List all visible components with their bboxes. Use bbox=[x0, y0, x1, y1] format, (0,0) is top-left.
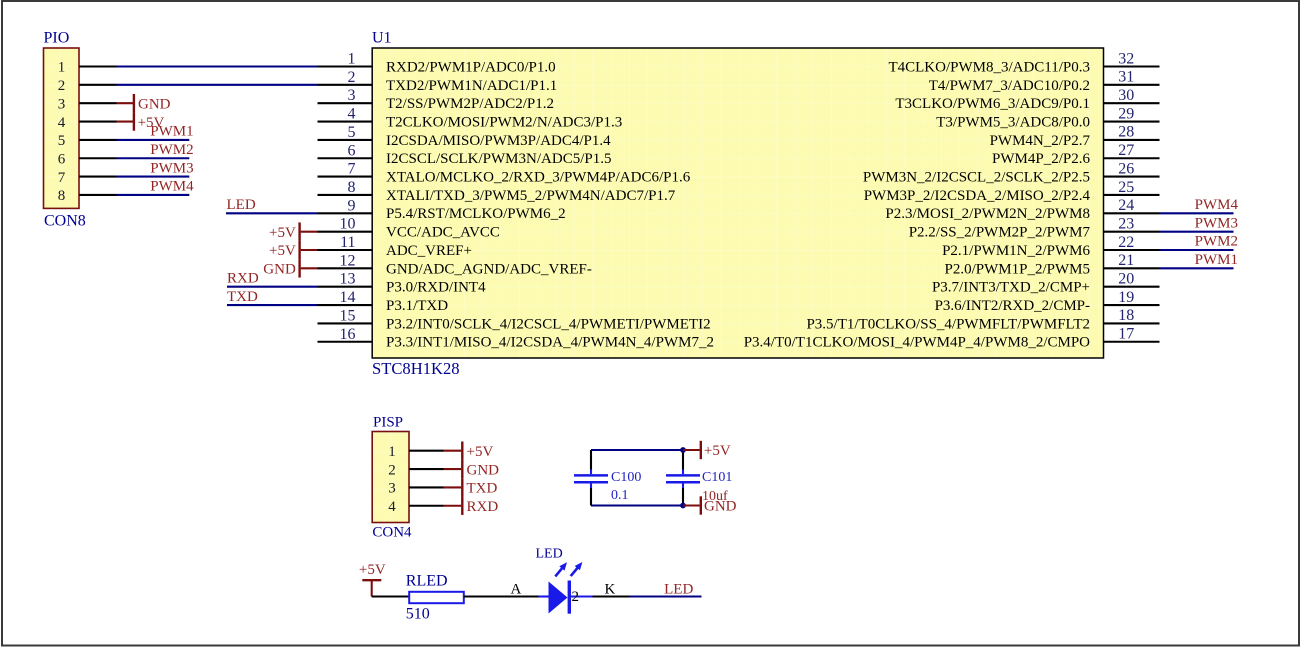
svg-text:13: 13 bbox=[340, 271, 356, 288]
svg-text:PWM1: PWM1 bbox=[150, 124, 193, 140]
svg-text:P3.5/T1/T0CLKO/SS_4/PWMFLT/PWM: P3.5/T1/T0CLKO/SS_4/PWMFLT/PWMFLT2 bbox=[806, 316, 1090, 332]
PISP pin 2 bbox=[409, 468, 444, 470]
svg-text:22: 22 bbox=[1118, 234, 1134, 251]
U1 pin 7 bbox=[318, 161, 691, 186]
svg-text:T3/PWM5_3/ADC8/P0.0: T3/PWM5_3/ADC8/P0.0 bbox=[936, 114, 1090, 130]
U1 pin 18 bbox=[806, 307, 1159, 332]
svg-text:P3.2/INT0/SCLK_4/I2CSCL_4/PWME: P3.2/INT0/SCLK_4/I2CSCL_4/PWMETI/PWMETI2 bbox=[386, 316, 711, 332]
svg-text:P2.1/PWM1N_2/PWM6: P2.1/PWM1N_2/PWM6 bbox=[942, 243, 1090, 259]
svg-text:LED: LED bbox=[536, 547, 563, 562]
svg-text:+5V: +5V bbox=[359, 562, 386, 578]
PIO pin 8 bbox=[79, 194, 116, 196]
junction bottom bbox=[680, 503, 686, 509]
svg-text:32: 32 bbox=[1118, 50, 1134, 67]
svg-text:T4/PWM7_3/ADC10/P0.2: T4/PWM7_3/ADC10/P0.2 bbox=[929, 78, 1090, 94]
svg-text:2: 2 bbox=[572, 589, 580, 605]
svg-text:7: 7 bbox=[348, 161, 356, 178]
diode LED (light-emitting diode symbol) bbox=[536, 547, 593, 614]
svg-text:5: 5 bbox=[58, 133, 66, 149]
svg-text:LED: LED bbox=[664, 582, 693, 598]
svg-text:XTALI/TXD_3/PWM5_2/PWM4N/ADC7/: XTALI/TXD_3/PWM5_2/PWM4N/ADC7/P1.7 bbox=[386, 188, 676, 204]
svg-text:P3.0/RXD/INT4: P3.0/RXD/INT4 bbox=[386, 280, 486, 296]
wire net PWM3 (PIO pin 7) bbox=[117, 176, 190, 178]
connector PISP (CON4) bbox=[372, 415, 412, 541]
svg-text:2: 2 bbox=[388, 462, 396, 478]
svg-text:26: 26 bbox=[1118, 160, 1134, 177]
U1 pin 30 bbox=[895, 87, 1159, 112]
U1 pin 20 bbox=[932, 271, 1160, 296]
svg-text:3: 3 bbox=[348, 87, 356, 104]
U1 pin 27 bbox=[992, 142, 1159, 167]
svg-text:16: 16 bbox=[340, 326, 356, 343]
svg-text:2: 2 bbox=[348, 69, 356, 86]
op-amp U1 (IC STC8H1K28 body) bbox=[372, 30, 1104, 378]
svg-text:7: 7 bbox=[58, 170, 66, 186]
U1 pin 14 bbox=[318, 289, 449, 314]
svg-text:CON8: CON8 bbox=[44, 213, 86, 230]
PIO pin 7 bbox=[79, 176, 116, 178]
svg-text:P5.4/RST/MCLKO/PWM6_2: P5.4/RST/MCLKO/PWM6_2 bbox=[386, 206, 566, 222]
svg-text:RXD: RXD bbox=[467, 499, 499, 515]
svg-text:C101: C101 bbox=[702, 470, 732, 485]
wire net PWM3 (U1 pin 23) bbox=[1160, 231, 1234, 233]
svg-text:P3.3/INT1/MISO_4/I2CSDA_4/PWM4: P3.3/INT1/MISO_4/I2CSDA_4/PWM4N_4/PWM7_2 bbox=[386, 335, 714, 351]
wire net PWM4 (PIO pin 8) bbox=[117, 194, 190, 196]
connector PIO (CON8) bbox=[44, 30, 86, 230]
wire net PWM4 (U1 pin 24) bbox=[1160, 212, 1234, 214]
svg-text:LED: LED bbox=[227, 197, 256, 213]
svg-text:1: 1 bbox=[388, 444, 396, 460]
PIO pin 1 bbox=[79, 65, 116, 67]
svg-text:STC8H1K28: STC8H1K28 bbox=[372, 359, 460, 378]
wire net to U1 pin1 bbox=[117, 65, 318, 67]
wire net LED (U1 pin 9) bbox=[226, 212, 318, 214]
svg-text:31: 31 bbox=[1118, 69, 1134, 86]
wire net TXD (U1 pin 14) bbox=[227, 304, 318, 306]
U1 pin 28 bbox=[990, 124, 1160, 149]
svg-text:15: 15 bbox=[340, 307, 356, 324]
svg-text:PWM4P_2/P2.6: PWM4P_2/P2.6 bbox=[992, 151, 1090, 167]
U1 pin 21 bbox=[945, 252, 1160, 277]
svg-text:GND: GND bbox=[467, 462, 500, 478]
U1 pin 24 bbox=[885, 197, 1159, 222]
power +5V port (caps) bbox=[683, 441, 731, 459]
svg-text:29: 29 bbox=[1118, 105, 1134, 122]
U1 pin 17 bbox=[744, 326, 1160, 351]
svg-text:21: 21 bbox=[1118, 252, 1134, 269]
svg-text:TXD: TXD bbox=[467, 481, 498, 497]
PIO pin 6 bbox=[79, 157, 116, 159]
svg-text:18: 18 bbox=[1118, 307, 1134, 324]
svg-text:P2.3/MOSI_2/PWM2N_2/PWM8: P2.3/MOSI_2/PWM2N_2/PWM8 bbox=[885, 206, 1090, 222]
PISP pin 1 bbox=[409, 450, 444, 452]
U1 pin 15 bbox=[318, 307, 711, 332]
svg-text:1: 1 bbox=[348, 51, 356, 68]
PISP pin 3 bbox=[409, 486, 444, 488]
wire RLED to LED anode bbox=[464, 595, 539, 597]
svg-text:20: 20 bbox=[1118, 271, 1134, 288]
power +5V port (LED rail) bbox=[359, 562, 386, 597]
svg-text:5: 5 bbox=[348, 124, 356, 141]
svg-text:P3.4/T0/T1CLKO/MOSI_4/PWM4P_4/: P3.4/T0/T1CLKO/MOSI_4/PWM4P_4/PWM8_2/CMP… bbox=[744, 335, 1090, 351]
svg-text:XTALO/MCLKO_2/RXD_3/PWM4P/ADC6: XTALO/MCLKO_2/RXD_3/PWM4P/ADC6/P1.6 bbox=[386, 170, 691, 186]
svg-text:8: 8 bbox=[348, 179, 356, 196]
svg-text:U1: U1 bbox=[372, 30, 392, 47]
power +5V port (U1 pin 11) bbox=[269, 241, 317, 259]
capacitor C100 bbox=[574, 450, 641, 506]
junction top bbox=[680, 447, 686, 453]
svg-text:T2CLKO/MOSI/PWM2/N/ADC3/P1.3: T2CLKO/MOSI/PWM2/N/ADC3/P1.3 bbox=[386, 114, 622, 130]
svg-text:14: 14 bbox=[340, 289, 356, 306]
wire cap top rail bbox=[591, 449, 683, 451]
svg-text:9: 9 bbox=[348, 197, 356, 214]
svg-text:PWM3: PWM3 bbox=[1195, 215, 1238, 231]
PIO pin 4 bbox=[79, 121, 116, 123]
svg-text:A: A bbox=[511, 582, 522, 598]
wire net RXD (U1 pin 13) bbox=[227, 286, 318, 288]
U1 pin 13 bbox=[318, 271, 487, 296]
ground GND port (U1 pin 12) bbox=[263, 259, 317, 277]
svg-text:23: 23 bbox=[1118, 215, 1134, 232]
U1 pin 22 bbox=[942, 234, 1159, 259]
svg-text:4: 4 bbox=[388, 499, 396, 515]
svg-text:6: 6 bbox=[58, 151, 66, 167]
svg-text:+5V: +5V bbox=[467, 444, 494, 460]
svg-text:P3.7/INT3/TXD_2/CMP+: P3.7/INT3/TXD_2/CMP+ bbox=[932, 280, 1090, 296]
svg-text:RXD: RXD bbox=[227, 270, 259, 286]
ground GND port (caps) bbox=[683, 496, 737, 514]
U1 pin 1 bbox=[318, 51, 556, 76]
power +5V port (U1 pin 10) bbox=[269, 222, 317, 240]
svg-text:PWM3P_2/I2CSDA_2/MISO_2/P2.4: PWM3P_2/I2CSDA_2/MISO_2/P2.4 bbox=[864, 188, 1091, 204]
svg-text:PWM1: PWM1 bbox=[1195, 252, 1238, 268]
svg-text:PWM4N_2/P2.7: PWM4N_2/P2.7 bbox=[990, 133, 1091, 149]
svg-text:GND: GND bbox=[704, 499, 737, 515]
power +5V port (PIO pin 4) bbox=[117, 112, 165, 130]
svg-text:VCC/ADC_AVCC: VCC/ADC_AVCC bbox=[386, 225, 500, 241]
svg-text:GND: GND bbox=[263, 262, 296, 278]
U1 pin 29 bbox=[936, 105, 1159, 130]
wire net PWM1 (PIO pin 5) bbox=[117, 139, 190, 141]
svg-text:T4CLKO/PWM8_3/ADC11/P0.3: T4CLKO/PWM8_3/ADC11/P0.3 bbox=[888, 59, 1090, 75]
svg-text:C100: C100 bbox=[611, 470, 641, 485]
U1 pin 5 bbox=[318, 124, 612, 149]
svg-text:P3.1/TXD: P3.1/TXD bbox=[386, 298, 448, 314]
U1 pin 4 bbox=[318, 106, 623, 131]
wire net LED bbox=[630, 595, 702, 597]
svg-text:TXD: TXD bbox=[227, 289, 258, 305]
svg-text:PWM2: PWM2 bbox=[1195, 234, 1238, 250]
svg-text:0.1: 0.1 bbox=[611, 488, 629, 503]
wire net PWM1 (U1 pin 21) bbox=[1160, 267, 1234, 269]
PIO pin 3 bbox=[79, 102, 116, 104]
svg-text:17: 17 bbox=[1118, 326, 1134, 343]
wire net PWM2 (PIO pin 6) bbox=[117, 157, 190, 159]
svg-text:+5V: +5V bbox=[269, 225, 296, 241]
U1 pin 3 bbox=[318, 87, 554, 112]
wire cap bottom rail bbox=[591, 504, 683, 506]
ground GND port (PISP pin 2) bbox=[444, 460, 500, 478]
svg-text:8: 8 bbox=[58, 188, 66, 204]
svg-text:PWM2: PWM2 bbox=[150, 142, 193, 158]
wire net to U1 pin2 bbox=[117, 84, 318, 86]
wire net PWM2 (U1 pin 22) bbox=[1160, 249, 1234, 251]
svg-text:PISP: PISP bbox=[373, 415, 403, 431]
U1 pin 25 bbox=[864, 179, 1160, 204]
U1 pin 16 bbox=[318, 326, 714, 351]
resistor RLED 510 bbox=[406, 573, 464, 623]
U1 pin 8 bbox=[318, 179, 676, 204]
svg-text:30: 30 bbox=[1118, 87, 1134, 104]
svg-text:+5V: +5V bbox=[269, 243, 296, 259]
svg-text:GND: GND bbox=[138, 96, 171, 112]
svg-text:2: 2 bbox=[58, 78, 66, 94]
svg-text:I2CSCL/SCLK/PWM3N/ADC5/P1.5: I2CSCL/SCLK/PWM3N/ADC5/P1.5 bbox=[386, 151, 611, 167]
U1 pin 31 bbox=[929, 69, 1160, 94]
U1 pin 23 bbox=[909, 215, 1160, 240]
svg-text:4: 4 bbox=[348, 106, 356, 123]
svg-text:+5V: +5V bbox=[704, 443, 731, 459]
svg-text:12: 12 bbox=[340, 252, 356, 269]
PIO pin 5 bbox=[79, 139, 116, 141]
svg-text:28: 28 bbox=[1118, 124, 1134, 141]
svg-text:4: 4 bbox=[58, 115, 66, 131]
svg-text:PWM3N_2/I2CSCL_2/SCLK_2/P2.5: PWM3N_2/I2CSCL_2/SCLK_2/P2.5 bbox=[863, 170, 1090, 186]
svg-text:I2CSDA/MISO/PWM3P/ADC4/P1.4: I2CSDA/MISO/PWM3P/ADC4/P1.4 bbox=[386, 133, 611, 149]
node TXD port (PISP pin 3) bbox=[444, 478, 498, 496]
svg-text:1: 1 bbox=[58, 60, 66, 76]
U1 pin 26 bbox=[863, 160, 1160, 185]
U1 pin 32 bbox=[888, 50, 1159, 75]
U1 pin 10 bbox=[318, 216, 500, 241]
svg-text:27: 27 bbox=[1118, 142, 1134, 159]
U1 pin 12 bbox=[318, 252, 592, 277]
svg-text:19: 19 bbox=[1118, 289, 1134, 306]
ground GND port (PIO pin 3) bbox=[117, 94, 171, 112]
svg-text:RLED: RLED bbox=[406, 573, 448, 590]
svg-text:PWM4: PWM4 bbox=[1195, 197, 1239, 213]
power +5V port (PISP pin 1) bbox=[444, 442, 494, 460]
svg-text:PWM4: PWM4 bbox=[150, 179, 194, 195]
svg-text:K: K bbox=[605, 582, 616, 598]
svg-text:T3CLKO/PWM6_3/ADC9/P0.1: T3CLKO/PWM6_3/ADC9/P0.1 bbox=[895, 96, 1090, 112]
svg-text:PIO: PIO bbox=[44, 30, 70, 47]
svg-text:GND/ADC_AGND/ADC_VREF-: GND/ADC_AGND/ADC_VREF- bbox=[386, 261, 592, 277]
svg-text:TXD2/PWM1N/ADC1/P1.1: TXD2/PWM1N/ADC1/P1.1 bbox=[386, 78, 557, 94]
svg-text:3: 3 bbox=[388, 481, 396, 497]
svg-text:3: 3 bbox=[58, 96, 66, 112]
svg-text:11: 11 bbox=[340, 234, 355, 251]
capacitor C101 bbox=[666, 450, 732, 506]
node RXD port (PISP pin 4) bbox=[444, 497, 499, 515]
wire LED cathode bbox=[593, 595, 631, 597]
U1 pin 19 bbox=[935, 289, 1160, 314]
U1 pin 11 bbox=[318, 234, 472, 259]
svg-text:P2.0/PWM1P_2/PWM5: P2.0/PWM1P_2/PWM5 bbox=[945, 261, 1090, 277]
svg-text:10: 10 bbox=[340, 216, 356, 233]
svg-text:24: 24 bbox=[1118, 197, 1134, 214]
svg-text:6: 6 bbox=[348, 142, 356, 159]
U1 pin 2 bbox=[318, 69, 558, 94]
PIO pin 2 bbox=[79, 84, 116, 86]
svg-text:PWM3: PWM3 bbox=[150, 160, 193, 176]
svg-text:CON4: CON4 bbox=[372, 525, 412, 541]
U1 pin 9 bbox=[318, 197, 566, 222]
svg-text:T2/SS/PWM2P/ADC2/P1.2: T2/SS/PWM2P/ADC2/P1.2 bbox=[386, 96, 554, 112]
svg-text:P2.2/SS_2/PWM2P_2/PWM7: P2.2/SS_2/PWM2P_2/PWM7 bbox=[909, 225, 1091, 241]
svg-text:510: 510 bbox=[406, 606, 430, 623]
PISP pin 4 bbox=[409, 505, 444, 507]
svg-text:P3.6/INT2/RXD_2/CMP-: P3.6/INT2/RXD_2/CMP- bbox=[935, 298, 1090, 314]
svg-text:25: 25 bbox=[1118, 179, 1134, 196]
svg-text:RXD2/PWM1P/ADC0/P1.0: RXD2/PWM1P/ADC0/P1.0 bbox=[386, 59, 556, 75]
U1 pin 6 bbox=[318, 142, 612, 167]
wire +5V to RLED bbox=[372, 595, 410, 597]
svg-text:ADC_VREF+: ADC_VREF+ bbox=[386, 243, 472, 259]
